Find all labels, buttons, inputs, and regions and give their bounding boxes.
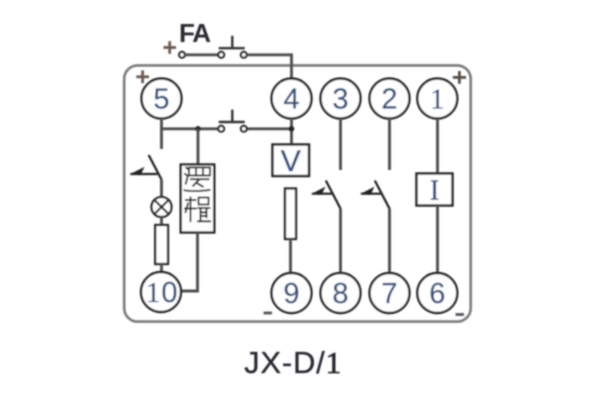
wire logic box to terminal 10 [181, 233, 198, 292]
junction node A (logic tap) [195, 126, 201, 132]
svg-text:4: 4 [283, 84, 299, 116]
svg-text:FA: FA [179, 18, 211, 48]
terminal 5 [142, 79, 182, 119]
svg-text:JX-D/1: JX-D/1 [244, 345, 342, 380]
wire ammeter box to terminal 6 [436, 206, 439, 274]
logic character 逻 [184, 167, 211, 191]
wire SB1 to terminal 4 [247, 55, 292, 79]
push-button SB1 actuator [219, 36, 245, 48]
voltmeter box V [273, 145, 310, 177]
svg-text:I: I [430, 176, 439, 207]
svg-text:V: V [281, 145, 301, 178]
wire R2 to terminal 9 [289, 239, 292, 273]
logic unit box [181, 165, 215, 233]
enclosure outline (relay case) [124, 65, 471, 321]
polarity + (external supply) [164, 41, 177, 54]
svg-text:0: 0 [161, 277, 177, 309]
push-button SB1 contact circles [218, 52, 224, 58]
wire FA terminal to button SB1 [185, 53, 218, 56]
junction node B (below terminal 4) [289, 126, 295, 132]
svg-text:6: 6 [429, 278, 445, 310]
wire K1 to lamp HL [160, 180, 163, 198]
terminal 4 [272, 79, 312, 119]
terminal 7 [370, 273, 410, 313]
wire K2 to terminal 8 [339, 209, 342, 273]
terminal 6 [417, 273, 457, 313]
terminal (open circle) at FA input [179, 52, 185, 58]
terminal 9 [272, 273, 312, 313]
svg-text:7: 7 [381, 278, 397, 310]
svg-text:3: 3 [332, 84, 348, 116]
svg-text:8: 8 [332, 278, 348, 310]
wire terminal 5 down to contact K1 [160, 118, 163, 149]
wire lamp to resistor R1 [160, 217, 163, 225]
wire terminal 1 to ammeter box [436, 119, 439, 174]
terminal 8 [321, 273, 361, 313]
polarity - near terminal 9 [264, 312, 273, 315]
wire terminal 3 to contact K2 [339, 118, 342, 170]
polarity + inside top-left [136, 70, 149, 83]
wire node A to logic box [197, 129, 200, 164]
contact K2 blade [326, 181, 341, 210]
wire terminal 2 to contact K3 [388, 118, 391, 170]
resistor R1 [155, 225, 168, 264]
contact K1 blade (terminal 5 branch) [149, 155, 162, 180]
push-button SB2 contact circles [218, 126, 224, 132]
wire K3 to terminal 7 [388, 209, 391, 273]
contact K3 blade [375, 181, 390, 210]
svg-text:5: 5 [153, 84, 169, 116]
ammeter box I [417, 174, 453, 206]
resistor R2 [285, 189, 296, 240]
contact K1 actuation arrow [131, 173, 158, 175]
terminal 1 [417, 79, 457, 119]
svg-text:1: 1 [430, 84, 445, 116]
lamp HL [152, 197, 172, 217]
terminal 2 [370, 79, 410, 119]
bus wire node row (from 5 column to 4 column) [162, 127, 219, 130]
terminal 10 [141, 272, 181, 312]
terminal 3 [321, 79, 361, 119]
contact K3 actuation arrow [361, 193, 382, 195]
svg-text:9: 9 [283, 278, 299, 310]
push-button SB2 actuator [219, 110, 245, 122]
wire terminal 4 down to node A and V box [290, 118, 293, 145]
svg-text:2: 2 [381, 84, 397, 116]
wire R1 to terminal 10 [160, 264, 163, 272]
svg-text:1: 1 [146, 277, 161, 309]
logic character 辑 [184, 197, 211, 223]
polarity + inside top-right [453, 71, 466, 84]
polarity - near terminal 6 (bottom-right) [456, 313, 465, 316]
contact K2 actuation arrow [312, 193, 333, 195]
